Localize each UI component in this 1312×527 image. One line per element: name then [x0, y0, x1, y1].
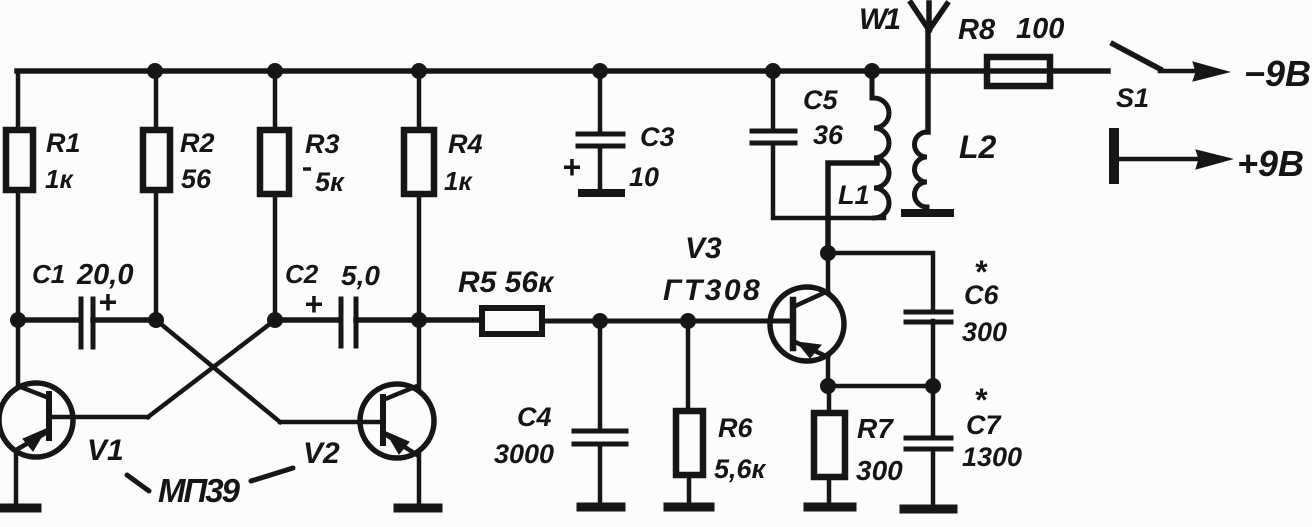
wire V2 collector [417, 320, 422, 388]
capacitor C4 [574, 431, 626, 444]
resistor R7 [814, 413, 845, 477]
switch S1 [1113, 44, 1160, 69]
resistor R3 [260, 130, 289, 194]
wire C3 drop [598, 71, 603, 133]
node dot mid R3 [267, 312, 283, 328]
capacitor C5 [752, 131, 795, 143]
capacitor C6 [906, 312, 951, 322]
ground V1 [1, 504, 37, 513]
svg-text:С3: С3 [640, 122, 675, 152]
svg-text:R1: R1 [46, 128, 81, 158]
wire R2 top [154, 71, 159, 129]
wire R1 bottom to mid node [16, 191, 21, 320]
wire R3 top [273, 71, 278, 128]
wire R6 drop [686, 321, 691, 410]
wire R7 bottom [827, 477, 832, 502]
capacitor C3 [578, 134, 623, 146]
V2 emitter arrow [386, 432, 409, 454]
svg-text:R8: R8 [958, 14, 996, 46]
wire top supply rail [17, 68, 1108, 74]
svg-text:R2: R2 [180, 128, 215, 158]
svg-text:С1: С1 [32, 259, 65, 289]
node dot V3 collector [820, 245, 836, 261]
battery plus terminal bar [1109, 133, 1119, 179]
svg-text:1к: 1к [444, 166, 473, 196]
antenna W1 [911, 3, 947, 132]
wire emitter node to R7 [827, 386, 832, 412]
pointer dash MP39 to V2 [251, 468, 293, 481]
svg-text:V3: V3 [685, 232, 722, 265]
V1 emitter arrow [23, 429, 46, 451]
wire C4 drop [598, 321, 603, 430]
svg-text:10: 10 [629, 162, 659, 192]
svg-text:56: 56 [181, 164, 212, 194]
V3 emitter arrow [797, 342, 821, 358]
node dot top R4 [411, 63, 427, 79]
resistor R6 [676, 411, 703, 475]
wire node D to R5 [419, 317, 481, 323]
ground C7 [904, 505, 953, 514]
wire R3 bottom [273, 195, 278, 320]
node dot mid R4 [411, 312, 427, 328]
svg-text:*: * [974, 254, 988, 290]
wire V2 emitter to ground [417, 454, 422, 503]
wire V3 collector up [826, 253, 831, 291]
wire R4 bottom [417, 195, 422, 320]
svg-text:*: * [974, 382, 988, 418]
dash before R3 value [303, 167, 311, 171]
resistor R4 [404, 130, 434, 194]
wire C7 bottom [931, 449, 936, 504]
arrow to minus 9V [1160, 62, 1229, 81]
node dot top L1 [864, 63, 880, 79]
inductor L1 [872, 71, 889, 218]
svg-text:R6: R6 [718, 413, 753, 443]
node dot top C5 [765, 63, 781, 79]
svg-text:С2: С2 [285, 259, 319, 289]
svg-text:V1: V1 [87, 434, 124, 467]
wire collector node to C6 [828, 253, 933, 311]
svg-text:S1: S1 [1116, 83, 1149, 113]
node dot C4 [592, 313, 608, 329]
wire C1 to node B [93, 317, 156, 323]
svg-text:300: 300 [962, 317, 1007, 347]
resistor R2 [143, 130, 170, 190]
svg-text:5к: 5к [315, 167, 345, 197]
wire R5 to V3 base [542, 319, 791, 324]
wire left column R1 top [16, 71, 21, 129]
svg-text:L1: L1 [838, 180, 870, 210]
svg-text:100: 100 [1016, 13, 1064, 45]
svg-text:С4: С4 [517, 402, 552, 432]
wire V1 collector [16, 320, 21, 387]
wire R2 bottom [154, 191, 159, 320]
svg-text:5,0: 5,0 [341, 260, 380, 291]
wire R6 bottom [687, 475, 692, 502]
svg-text:36: 36 [813, 120, 844, 150]
svg-text:L2: L2 [959, 129, 997, 165]
pointer dash MP39 to V1 [127, 475, 149, 491]
wire V1 emitter to ground [14, 450, 19, 503]
svg-text:R3: R3 [305, 129, 340, 159]
wire C4 bottom [598, 444, 603, 502]
svg-text:3000: 3000 [494, 439, 554, 469]
ground C4 [581, 503, 621, 512]
wire R4 top [417, 71, 422, 128]
svg-text:5,6к: 5,6к [714, 454, 767, 484]
svg-text:ГТ308: ГТ308 [663, 274, 762, 307]
wire C2 to node D [356, 317, 419, 323]
transistor V2 [280, 384, 434, 458]
svg-text:R4: R4 [448, 129, 483, 159]
wire V3 emitter down [826, 357, 831, 386]
wire node C to C2 [275, 317, 339, 323]
svg-text:W1: W1 [859, 3, 900, 36]
resistor R5 [482, 308, 542, 334]
node dot R6 [680, 313, 696, 329]
transistor V3 [770, 287, 844, 361]
wire C6 to node E [931, 321, 936, 386]
svg-text:−9В: −9В [1244, 53, 1311, 94]
node dot top R3 [267, 63, 283, 79]
node dot V3 emitter [820, 378, 836, 394]
wire collector node to L1 tap [828, 163, 877, 253]
arrow to plus 9V [1119, 150, 1232, 169]
wire C5 bottom to L1 bottom [773, 143, 884, 218]
ground V2 [398, 504, 438, 513]
svg-text:+9В: +9В [1237, 143, 1304, 184]
wire node E to C7 [931, 386, 936, 437]
svg-text:R7: R7 [857, 413, 894, 444]
ground C3 [582, 189, 621, 197]
svg-text:1к: 1к [45, 164, 74, 194]
wire emitter node to C6 C7 node [828, 384, 933, 389]
node dot top R2 [147, 63, 163, 79]
svg-text:300: 300 [856, 455, 903, 486]
node dot top C3 [592, 63, 608, 79]
svg-text:1300: 1300 [962, 442, 1022, 472]
inductor L2 [914, 132, 927, 211]
svg-text:+: + [562, 149, 581, 185]
svg-text:+: + [304, 286, 323, 322]
svg-text:С5: С5 [803, 85, 838, 115]
svg-text:V2: V2 [303, 437, 340, 470]
capacitor C1 [81, 299, 93, 347]
wire cross coupling node B to V2 base [156, 320, 280, 422]
node dot C6 C7 [925, 378, 941, 394]
capacitor C2 [341, 299, 356, 346]
node dot mid R2 [148, 312, 164, 328]
ground L2 [905, 209, 950, 217]
capacitor C7 [906, 438, 951, 449]
ground R6 [668, 503, 710, 512]
node dot mid R1 [10, 312, 26, 328]
wire C3 bottom [598, 146, 603, 190]
svg-text:+: + [98, 284, 117, 320]
resistor R8 [987, 57, 1050, 86]
wire C5 drop [771, 71, 776, 130]
ground R7 [808, 503, 852, 512]
svg-text:R5 56к: R5 56к [458, 266, 555, 299]
wire cross coupling node C to V1 base [148, 320, 275, 417]
resistor R1 [6, 130, 33, 190]
wire mid rail node A to C1 [18, 317, 79, 323]
transistor V1 [0, 383, 148, 457]
svg-text:МП39: МП39 [158, 472, 241, 509]
